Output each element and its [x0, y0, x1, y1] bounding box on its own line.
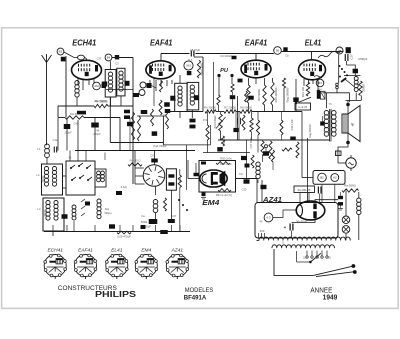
test point B4 [316, 79, 324, 87]
wire left power vertical [261, 180, 263, 203]
wire mid power vertical [307, 138, 309, 201]
wire B+ drop x302 [301, 112, 303, 178]
resistor EAF41a cathode [160, 81, 163, 93]
wire bus seg3 [236, 111, 240, 113]
resistor R16 [261, 141, 264, 155]
wire EAF41a grid link [152, 86, 157, 89]
svg-text:A2: A2 [333, 176, 337, 180]
output transformer T3 secondary [332, 111, 337, 116]
svg-text:32a: 32a [105, 208, 110, 211]
wire y116 [137, 115, 165, 117]
capacitor under S1 [85, 202, 90, 206]
wire y117 left [58, 117, 65, 119]
capacitor C10 (T2 left) [170, 96, 175, 101]
wire mains left drop [274, 249, 313, 275]
resistor R12 vertical [282, 78, 285, 88]
switch S1 contacts [71, 165, 75, 168]
svg-text:0,1µF: 0,1µF [121, 186, 128, 189]
capacitor C11 (T2 right) [194, 95, 199, 100]
wire x213 vertical [213, 62, 215, 112]
wire antenna coil link [46, 144, 49, 146]
wire EAF41a pin stubs [149, 80, 151, 87]
svg-text:34,5: 34,5 [186, 64, 191, 67]
svg-text:Pr4: Pr4 [203, 118, 208, 122]
mains plug dot A [352, 264, 356, 268]
terminal square DR [346, 47, 351, 53]
svg-text:56: 56 [276, 49, 280, 53]
wire EL41 pin stubs [303, 79, 305, 86]
terminal square below B2 [61, 57, 66, 62]
tuning box L1 frame [42, 164, 63, 195]
wire EL41 top to C27 [282, 51, 344, 53]
capacitor Cx2 [124, 115, 130, 119]
wire pot to bus140 [220, 131, 222, 140]
svg-text:R8 50000: R8 50000 [240, 106, 252, 110]
pin stubs bottom of box [258, 233, 260, 238]
wire extras left [104, 153, 106, 161]
wire cap links [291, 231, 293, 239]
wires into S2 from left [135, 167, 144, 169]
capacitor C1a 100pF [64, 124, 71, 129]
capacitor Ca 50pF [149, 219, 158, 224]
terminal square B5 [187, 71, 192, 75]
terminal square B4b [115, 55, 119, 59]
resistor R15 [222, 136, 225, 146]
svg-text:BF491A: BF491A [184, 295, 207, 302]
potentiometer P vol [219, 114, 223, 131]
svg-text:500µµ: 500µµ [104, 212, 112, 215]
resistor P padding [65, 116, 84, 119]
svg-text:EL41: EL41 [305, 39, 322, 48]
rotary switch S2 [143, 165, 165, 187]
capacitor C51 [338, 196, 343, 199]
svg-text:1949: 1949 [323, 292, 338, 301]
wire B2 branch down [65, 56, 67, 117]
svg-text:C8 47pF: C8 47pF [190, 48, 201, 52]
speaker junction bottom [346, 141, 350, 145]
switch arm diag [299, 97, 312, 102]
svg-text:Rag 300000: Rag 300000 [309, 124, 312, 138]
test point AM [93, 82, 101, 90]
wire T2 top stub [179, 75, 181, 83]
svg-text:im: im [338, 48, 341, 52]
capacitor AVC link [194, 173, 199, 177]
resistor R9 vertical [247, 85, 250, 103]
osc trimmer box [166, 169, 176, 190]
wire speaker verticals [347, 105, 349, 115]
terminal square EAF41a [147, 83, 152, 88]
wire grid bus left [58, 105, 94, 107]
wire avc y152 [203, 152, 250, 154]
capacitor C top2 [248, 96, 254, 100]
wire x154 drop [153, 78, 155, 106]
svg-text:6,3: 6,3 [267, 216, 271, 220]
capacitor Cx1 [124, 110, 130, 114]
terminal square right of 56 [283, 47, 287, 52]
terminal stub circle [265, 145, 268, 148]
switch dots S2b [178, 199, 180, 201]
resistor R grid 218 [217, 95, 220, 105]
wire lamp bottom [345, 233, 347, 240]
capacitor C50 [317, 187, 319, 194]
svg-text:EAF41: EAF41 [245, 39, 268, 48]
resistor R17 vertical [206, 125, 209, 140]
capacitor C23 [263, 151, 269, 156]
wire EM4 right to bus [236, 178, 258, 180]
mains plug dot B [353, 270, 357, 274]
voltage selector arm [310, 253, 320, 262]
dial lamp L2 [342, 226, 350, 234]
wire bus y140 [218, 139, 330, 141]
svg-text:B4: B4 [318, 81, 322, 85]
wire vertical right of T1 [132, 58, 134, 185]
wire big box bottom [110, 142, 163, 144]
wire x237 vertical [237, 96, 239, 140]
wire osc block bottom [170, 190, 172, 219]
wire x257 vertical [256, 179, 258, 203]
wire S2 bus links [134, 151, 136, 185]
coil under S1 [72, 205, 76, 209]
wire big box left [109, 97, 111, 143]
svg-text:PHILIPS: PHILIPS [95, 290, 136, 299]
tube EAF41 U2 [146, 61, 175, 79]
bandswitch box S1 [66, 161, 95, 195]
capacitor C18 [141, 225, 146, 229]
test point B4b [105, 54, 112, 61]
svg-text:R6 30000: R6 30000 [204, 106, 216, 110]
resistor Rc on bus [240, 110, 252, 113]
coil T1 secondary [119, 71, 123, 75]
svg-text:30000: 30000 [44, 209, 47, 217]
resistor R13 EL41 cathode [306, 82, 309, 96]
svg-text:Ra 300Ω: Ra 300Ω [344, 184, 356, 188]
capacitor C15 [217, 147, 223, 151]
svg-text:C37: C37 [97, 57, 102, 61]
coil T2 primary [178, 86, 182, 90]
capacitor C4a [77, 111, 86, 115]
svg-text:Cd 100pF: Cd 100pF [220, 54, 232, 58]
svg-text:C1a: C1a [53, 138, 58, 142]
svg-text:Sec: Sec [300, 244, 305, 247]
svg-text:AZ41: AZ41 [171, 248, 184, 254]
svg-text:C5: C5 [115, 62, 119, 66]
resistor Rx3 vertical [151, 109, 154, 126]
resistor vert top2 [245, 91, 248, 102]
test point B5 [184, 61, 193, 70]
svg-text:Rag 111kΩ: Rag 111kΩ [200, 63, 204, 76]
svg-text:50pF: 50pF [145, 225, 151, 229]
wire box links [63, 175, 67, 177]
dial lamp L1 [342, 216, 350, 224]
svg-text:B2: B2 [320, 176, 324, 180]
wire row1 ext left [257, 239, 260, 241]
svg-text:Pot 0.5MΩ: Pot 0.5MΩ [213, 116, 217, 129]
wire L1a down [46, 158, 48, 164]
capacitor C41 [116, 191, 122, 195]
wire R20 top [354, 73, 356, 75]
test point Be [139, 90, 145, 96]
resistor R5 vertical [159, 100, 162, 115]
wire contacts out [336, 89, 338, 93]
wire DR drop [338, 55, 340, 84]
wire PU right down [231, 76, 233, 85]
coil L2b [54, 201, 58, 205]
svg-text:B2: B2 [59, 50, 63, 54]
resistor R4 30000 [94, 104, 108, 107]
wire EM4 left [188, 178, 199, 180]
IF transformer T1 box left [105, 70, 116, 98]
wire top bus right [196, 53, 274, 55]
wire AZ41 anode top [315, 200, 338, 203]
capacitor C5 (T1 left) [102, 82, 108, 87]
IF transformer T2 box left [175, 83, 187, 111]
wire C27 down [346, 61, 348, 65]
wire bus y111 [166, 111, 203, 113]
wire left drop [57, 106, 59, 117]
output transformer T3 core [329, 109, 331, 142]
resistor Rag 11k vertical [197, 60, 200, 78]
power enclosure box [255, 203, 338, 239]
resistor Rb on bus [224, 110, 236, 113]
svg-text:Cm: Cm [239, 172, 243, 176]
test point DR [336, 47, 343, 54]
capacitor Cx3 [141, 110, 148, 114]
svg-text:EAF41: EAF41 [78, 248, 93, 254]
svg-text:4V: 4V [259, 221, 262, 224]
svg-text:B4: B4 [107, 56, 111, 60]
capacitor C6a [133, 93, 139, 97]
wire bus drops [52, 225, 54, 232]
wire y145 link [163, 144, 210, 146]
wire from B2 to tube grid [64, 52, 78, 58]
capacitor C mid [244, 179, 250, 183]
capacitor C4b 200pF [91, 123, 99, 128]
transformer primary winding [259, 237, 350, 240]
wire bus seg4 [252, 111, 302, 113]
svg-text:430: 430 [179, 177, 182, 182]
capacitor box corner [201, 162, 206, 165]
wire grid bus right [108, 105, 133, 107]
tuning box L2 frame [43, 198, 64, 231]
pot wiper [216, 117, 226, 129]
resistor R20 20000 [359, 81, 362, 96]
coil L1b [44, 167, 48, 171]
wire lamp chain [345, 191, 347, 216]
capacitor C30 [261, 185, 267, 189]
coil L osc grid [75, 81, 79, 85]
resistor R19 vertical [280, 120, 283, 135]
svg-text:EM4: EM4 [141, 248, 151, 254]
wire EL41 anode to OT [323, 92, 350, 94]
resistor R31 on bottom edge [218, 189, 231, 192]
coil T1 primary [108, 72, 112, 76]
svg-text:R31 Ω+4v(7v): R31 Ω+4v(7v) [216, 193, 232, 197]
resistor R 100000 [231, 84, 234, 92]
capacitor EM4 ground [202, 193, 206, 197]
svg-text:C4a: C4a [74, 122, 79, 126]
svg-text:hp: hp [351, 123, 355, 127]
switch contact circles [336, 83, 339, 86]
wire R pad to ground bus [179, 190, 181, 232]
wire AVC bus y150 to S2 [120, 150, 135, 152]
svg-text:30+50µF: 30+50µF [296, 220, 307, 224]
svg-text:0,05-470µF: 0,05-470µF [117, 235, 131, 239]
mains input jack [346, 158, 356, 168]
svg-text:Ca: Ca [141, 214, 145, 218]
wire ECH41 pin stubs [77, 79, 79, 86]
transformer taps [306, 251, 308, 256]
wire R16 down [262, 155, 264, 162]
capacitor Cx6 [190, 125, 196, 129]
resistor R16b [269, 141, 272, 159]
wire selector diag [316, 272, 354, 277]
wire T1 top stub [110, 61, 112, 69]
resistor Ra 30000 on bus [205, 110, 216, 113]
switch contact dots [339, 65, 341, 67]
svg-text:MODELES: MODELES [185, 287, 214, 294]
svg-text:34,5: 34,5 [188, 59, 193, 62]
capacitor above S2 [151, 159, 158, 163]
wire to PU jack [337, 156, 339, 164]
svg-text:C17 5000: C17 5000 [250, 137, 253, 148]
wire mid vertical x120 [119, 118, 121, 151]
tone switch S3 lever [341, 78, 346, 82]
tube EL41 U4 [299, 60, 326, 80]
wire choke down to winding [358, 215, 360, 240]
svg-text:C47: C47 [172, 214, 177, 218]
flex wire to DR [318, 51, 341, 59]
capacitor C52 [338, 202, 343, 205]
lamp box frame [313, 171, 345, 185]
resistor R10 vertical [263, 85, 266, 105]
wire x203 top [194, 56, 203, 58]
wire bus y150 [75, 150, 195, 152]
svg-text:Rag 300000: Rag 300000 [286, 87, 290, 102]
svg-text:EM4: EM4 [202, 198, 220, 207]
svg-text:AM: AM [94, 84, 99, 88]
coil T2 secondary [190, 85, 194, 89]
svg-text:ECH41: ECH41 [47, 248, 63, 254]
resistor R8b vertical [242, 115, 245, 130]
capacitor C4c [127, 122, 133, 126]
resistor Ra 300 [342, 189, 359, 192]
capacitor C pad [62, 214, 68, 219]
resistor R14 [250, 118, 253, 132]
capacitor C22 near OT [320, 121, 324, 125]
wire AZ41 links [273, 210, 296, 218]
resistor Pr4 430 [128, 163, 142, 166]
wire big box right [162, 116, 164, 145]
coil L1c [52, 167, 56, 171]
wire lamp feeds [321, 185, 323, 203]
tube EM4 U5 [200, 170, 227, 187]
svg-text:S1: S1 [68, 156, 72, 160]
capacitor C27 4700pF [344, 54, 346, 61]
svg-text:ECH41: ECH41 [72, 39, 96, 48]
svg-text:C30: C30 [242, 188, 247, 192]
resistor R16d [296, 142, 299, 158]
coil filter choke [256, 162, 260, 166]
wire top bus left [161, 53, 190, 55]
wire y117 right [84, 117, 120, 119]
svg-text:PU: PU [220, 68, 229, 74]
resistor R16c [251, 155, 254, 168]
svg-text:EAF41: EAF41 [150, 39, 173, 48]
wire PU left down [218, 76, 220, 96]
wire selector to plug [313, 266, 352, 275]
wire T1 top to bus [112, 57, 133, 59]
svg-text:C9: C9 [163, 113, 167, 117]
tube EAF41 U3 [241, 60, 271, 78]
svg-text:R11 0,1M: R11 0,1M [291, 120, 294, 131]
wire speaker bottom lead [338, 143, 348, 152]
wire x186 drop [186, 145, 188, 190]
svg-text:C27: C27 [350, 54, 354, 60]
test point 56 [274, 47, 282, 55]
resistor R30 on top edge [216, 162, 230, 165]
capacitor Cv [237, 118, 239, 125]
resistor Rx1 vertical [132, 112, 135, 140]
coil L2c column [97, 199, 101, 203]
wire L2 bottom [52, 231, 54, 236]
svg-text:4V0: 4V0 [260, 229, 265, 233]
wire Ra down [358, 192, 360, 198]
capacitor C16 [233, 128, 238, 132]
svg-text:Pot.Pr.: Pot.Pr. [70, 112, 78, 116]
svg-text:100pF: 100pF [64, 131, 72, 135]
resistor R18 vertical [256, 120, 259, 135]
resistor Rx5 vertical [164, 198, 167, 211]
wire AM row [106, 89, 133, 91]
wire osc coil down [76, 97, 78, 106]
capacitor C9a [164, 102, 170, 107]
svg-text:R30 Ω+5v: R30 Ω+5v [220, 157, 232, 161]
wire bus seg2 [216, 111, 224, 113]
resistor Rx2 vertical [138, 116, 141, 141]
wire AZ41 cathode bottom [292, 218, 316, 223]
antenna [42, 55, 47, 63]
svg-text:4700pF: 4700pF [358, 57, 368, 61]
choke coil right [357, 198, 361, 202]
svg-text:R+100-25: R+100-25 [298, 188, 311, 192]
wire choke top link [344, 75, 361, 77]
loudspeaker LS [342, 114, 348, 133]
capacitor Cx5 [190, 119, 196, 123]
capacitor coupling cluster [109, 224, 115, 228]
box C+9-25 [295, 103, 311, 110]
capacitor det blob [293, 97, 298, 102]
svg-text:C+9-25: C+9-25 [298, 105, 307, 109]
wire x58 drop [57, 118, 59, 151]
output transformer T3 primary [324, 111, 329, 116]
test point 6.3V [264, 213, 273, 222]
capacitor inside box [168, 174, 174, 177]
svg-text:+: + [284, 225, 287, 230]
svg-text:Pr4.30 Ω: Pr4.30 Ω [130, 159, 141, 163]
capacitor Cd [232, 56, 237, 60]
test point B2 right [318, 173, 327, 182]
wire C51 links [340, 192, 342, 196]
capacitor C9b [165, 109, 171, 113]
tube ECH41 U1 [72, 60, 102, 79]
capacitor EL41 anode block [317, 90, 320, 99]
capacitor C top1 [230, 95, 236, 99]
coil L osc [153, 200, 158, 205]
svg-text:R10 300000: R10 300000 [274, 87, 278, 102]
wire EL41 grid top [311, 52, 313, 61]
junction PU left [217, 74, 220, 77]
IF transformer T1 box right [117, 68, 125, 96]
